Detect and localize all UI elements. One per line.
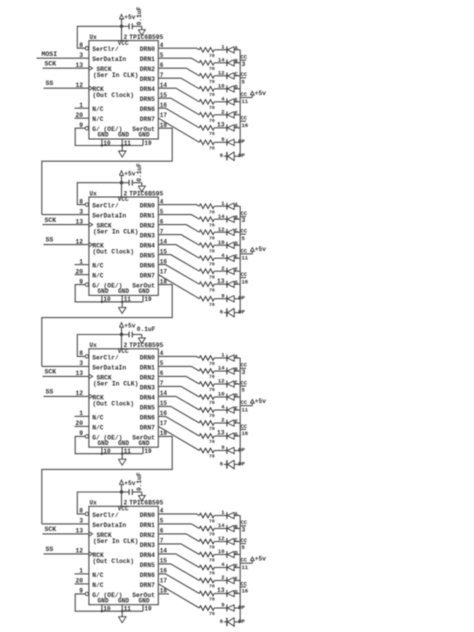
ground symbol below U1 (118, 146, 126, 158)
LED segment G diode (stage 4) (227, 590, 240, 597)
common pin CC 3 tap (stage 4) (240, 519, 248, 533)
display pin number 9 (stage 3) (221, 444, 224, 451)
capacitor C4 0.1uF bypass (stage 4) (122, 489, 142, 495)
capacitor C2 0.1uF bypass (stage 2) (122, 180, 142, 186)
node VCC junction (stage 4) (120, 490, 123, 493)
wire DRN3 pin 7 to resistor (stage 2) (158, 235, 199, 246)
display pin number 12 (stage 3) (218, 378, 225, 385)
svg-text:70: 70 (209, 274, 215, 280)
svg-text:8: 8 (79, 350, 83, 357)
wire serial data from previous stage to pin 3 (stage 4) (42, 523, 89, 525)
svg-text:DRN2: DRN2 (140, 374, 155, 381)
IC U1 TPIC6B595 shift register (89, 34, 164, 139)
display pin number 9 (stage 2) (221, 292, 224, 299)
wire DRN6 pin 16 to resistor (stage 1) (158, 108, 199, 128)
common pin CC 16 tap (stage 3) (240, 423, 248, 437)
+5V power symbol (stage 1) (119, 14, 135, 26)
wire resistor to LED (stage 3 row B) (214, 370, 227, 372)
pin 9 inversion bubble G/OE (stage 2) (85, 283, 88, 286)
wire resistor to LED (stage 4 row F) (214, 580, 227, 582)
wire resistor to LED (stage 3 row G) (214, 435, 227, 437)
segment letter DP2 (stage 2) (238, 309, 245, 316)
svg-text:+5v: +5v (124, 14, 135, 21)
svg-text:CC: CC (241, 210, 248, 217)
resistor R3 70 ohm segment C (stage 1) (199, 74, 215, 86)
wire resistor to LED (stage 4 row E) (214, 567, 227, 569)
resistor R14 70 ohm segment F (stage 2) (199, 269, 215, 281)
svg-text:CC: CC (241, 557, 248, 564)
svg-text:11: 11 (124, 140, 132, 147)
segment letter A (stage 4) (235, 511, 239, 517)
LED segment D diode (stage 2) (227, 242, 240, 249)
LED segment B diode (stage 2) (227, 216, 240, 223)
svg-text:13: 13 (217, 587, 225, 594)
svg-text:DRN7: DRN7 (140, 582, 155, 589)
svg-text:B: B (235, 215, 238, 221)
common pin CC 16 tap (stage 2) (240, 271, 248, 285)
svg-text:SS: SS (46, 80, 54, 87)
svg-text:GND: GND (98, 440, 109, 447)
svg-text:CC: CC (241, 537, 248, 544)
svg-text:G: G (235, 589, 238, 595)
svg-text:10: 10 (218, 391, 225, 398)
wire DRN4 pin 14 to resistor (stage 4) (158, 554, 199, 568)
svg-text:(Ser In CLK): (Ser In CLK) (93, 538, 138, 545)
wire resistor to LED (stage 2 row C) (214, 231, 227, 233)
svg-text:SerClr/: SerClr/ (92, 512, 119, 519)
svg-text:70: 70 (209, 519, 215, 525)
svg-text:GND: GND (139, 288, 150, 295)
svg-text:+5v: +5v (124, 322, 135, 329)
svg-text:DRN7: DRN7 (140, 273, 155, 280)
svg-text:N/C: N/C (92, 106, 104, 113)
svg-text:DRN7: DRN7 (140, 424, 155, 431)
wire MOSI to SerDataIn pin 3 (37, 57, 89, 59)
wire SerClr tie-high: junction to pin 8 (stage 1) (77, 26, 121, 48)
svg-text:6: 6 (220, 309, 223, 316)
LED segment D diode (stage 4) (227, 551, 240, 558)
svg-text:11: 11 (242, 564, 249, 571)
GND pin stubs 10 11 19 (stage 1) (101, 139, 152, 147)
svg-text:12: 12 (218, 226, 225, 233)
pin 1 N/C stub (stage 2) (75, 264, 89, 266)
svg-text:DP: DP (238, 152, 245, 159)
pin 8 inversion bubble SerClr (stage 3) (85, 355, 88, 358)
svg-text:N/C: N/C (92, 582, 104, 589)
svg-text:70: 70 (209, 558, 215, 564)
ground for C2 (stage 2) (138, 183, 145, 192)
display pin number 2 (stage 1) (221, 108, 224, 115)
LED segment F diode (stage 1) (227, 111, 240, 118)
svg-text:70: 70 (209, 261, 215, 267)
svg-text:GND: GND (139, 132, 150, 139)
svg-text:GND: GND (139, 597, 150, 604)
LED segment A diode (stage 4) (227, 512, 240, 519)
svg-text:10: 10 (103, 448, 111, 455)
segment letter F (stage 1) (235, 111, 238, 117)
svg-text:70: 70 (209, 92, 215, 98)
node VCC junction (stage 3) (120, 333, 123, 336)
svg-text:8: 8 (79, 508, 83, 515)
wire DRN5 pin 15 to resistor (stage 1) (158, 98, 199, 115)
net label SS (stage 3) (46, 388, 54, 395)
resistor R23 70 ohm segment G (stage 3) (199, 434, 215, 446)
svg-text:11: 11 (124, 296, 132, 303)
pin 2 label VCC (stage 4) (124, 500, 128, 507)
pin 13 clock wedge (stage 3) (89, 374, 93, 378)
svg-text:0.1uF: 0.1uF (136, 163, 143, 182)
svg-text:19: 19 (144, 296, 152, 303)
wire DRN7 pin 17 to resistor (stage 3) (158, 426, 199, 450)
wire DRN0 pin 4 to resistor (stage 4) (158, 514, 199, 516)
svg-text:9: 9 (221, 136, 224, 143)
segment letter F (stage 3) (235, 419, 238, 425)
svg-text:VCC: VCC (118, 506, 129, 513)
wire resistor to LED (stage 4 row C) (214, 541, 227, 543)
svg-text:DRN0: DRN0 (140, 203, 155, 210)
segment letter DP (stage 3) (238, 446, 245, 453)
svg-text:CC: CC (241, 519, 248, 526)
svg-text:10: 10 (103, 140, 111, 147)
wire DRN2 pin 6 to resistor (stage 1) (158, 68, 199, 76)
common anode bus (stage 3) (239, 358, 241, 464)
wire resistor to LED (stage 1 row F) (214, 114, 227, 116)
svg-text:CC: CC (241, 271, 248, 278)
svg-text:SS: SS (46, 237, 54, 244)
resistor R11 70 ohm segment C (stage 2) (199, 230, 215, 242)
svg-text:70: 70 (209, 545, 215, 551)
wire SS to RCK pin 12 (stage 3) (44, 395, 89, 397)
svg-text:DRN4: DRN4 (140, 394, 155, 401)
wire G/OE pin 9 to ground rail (stage 4) (75, 594, 143, 611)
net label MOSI (42, 51, 58, 58)
LED segment E diode (stage 4) (227, 564, 240, 571)
common pin CC 5 tap (stage 2) (240, 228, 248, 242)
svg-text:DRN0: DRN0 (140, 512, 155, 519)
svg-text:2: 2 (221, 574, 224, 581)
common pin CC 5 tap (stage 4) (240, 537, 248, 551)
resistor R26 70 ohm segment B (stage 4) (199, 526, 215, 538)
wire DRN1 pin 5 to resistor (stage 3) (158, 366, 199, 371)
pin 13 clock wedge (stage 1) (89, 66, 93, 70)
svg-text:Ux: Ux (90, 34, 98, 41)
wire SS to RCK pin 12 (stage 2) (44, 244, 89, 246)
IC U4 TPIC6B595 shift register (89, 500, 164, 605)
svg-text:DRN1: DRN1 (140, 522, 155, 529)
LED segment DP diode (stage 4) (227, 605, 240, 612)
svg-text:F: F (235, 419, 238, 425)
wire resistor to LED (stage 2 row DP) (214, 298, 227, 300)
svg-text:CC: CC (241, 379, 248, 386)
wire DRN1 pin 5 to resistor (stage 2) (158, 215, 199, 220)
svg-text:DRN1: DRN1 (140, 213, 155, 220)
resistor R19 70 ohm segment C (stage 3) (199, 382, 215, 394)
svg-text:16: 16 (242, 278, 249, 285)
svg-text:9: 9 (221, 602, 224, 609)
svg-text:6: 6 (220, 618, 223, 625)
svg-text:70: 70 (209, 374, 215, 380)
svg-text:DRN4: DRN4 (140, 86, 155, 93)
+5V supply to anode bus (stage 3) (246, 398, 266, 406)
LED segment F diode (stage 4) (227, 577, 240, 584)
svg-text:CC: CC (241, 580, 248, 587)
segment letter E (stage 4) (235, 563, 238, 569)
GND pin stubs 10 11 19 (stage 2) (101, 295, 152, 303)
segment letter F (stage 2) (235, 267, 238, 273)
svg-text:3: 3 (242, 527, 246, 534)
svg-text:+5v: +5v (255, 398, 266, 405)
IC U2 TPIC6B595 shift register (89, 190, 164, 295)
LED segment C diode (stage 3) (227, 381, 240, 388)
svg-text:G: G (235, 280, 238, 286)
svg-text:70: 70 (209, 79, 215, 85)
GND pin stubs 10 11 19 (stage 4) (101, 605, 152, 613)
LED segment E diode (stage 2) (227, 255, 240, 262)
svg-text:(Out Clock): (Out Clock) (93, 92, 135, 99)
ground symbol below U3 (118, 454, 126, 466)
svg-text:70: 70 (209, 302, 215, 308)
svg-text:D: D (235, 393, 238, 399)
common anode bus (stage 1) (239, 50, 241, 156)
svg-text:N/C: N/C (92, 116, 104, 123)
svg-text:17: 17 (160, 420, 168, 427)
svg-text:70: 70 (209, 387, 215, 393)
display pin number 6 stub (stage 2) (220, 309, 227, 316)
wire SerOut stage 3 to SerDataIn stage 4 (42, 436, 172, 524)
resistor R28 70 ohm segment D (stage 4) (199, 552, 215, 564)
wire SCK to SRCK pin 13 (stage 2) (43, 224, 89, 226)
svg-text:70: 70 (209, 235, 215, 241)
segment letter C (stage 2) (235, 228, 238, 234)
wire DRN0 pin 4 to resistor (stage 1) (158, 48, 199, 50)
svg-text:SCK: SCK (45, 526, 57, 533)
svg-text:10: 10 (218, 82, 225, 89)
left pin numbers 8 3 13 12 1 20 9 (stage 4) (75, 508, 83, 595)
svg-text:2: 2 (221, 108, 224, 115)
wire SerOut stage 2 to SerDataIn stage 3 (42, 285, 172, 367)
segment letter C (stage 3) (235, 380, 238, 386)
resistor R16 70 ohm segment DP (stage 2) (199, 296, 215, 308)
resistor R29 70 ohm segment E (stage 4) (199, 565, 215, 577)
resistor R22 70 ohm segment F (stage 3) (199, 421, 215, 433)
svg-text:DRN0: DRN0 (140, 354, 155, 361)
svg-text:14: 14 (218, 213, 225, 220)
display pin number 10 (stage 2) (218, 239, 225, 246)
svg-text:19: 19 (144, 448, 152, 455)
display pin number 12 (stage 4) (218, 535, 225, 542)
wire DRN7 pin 17 to resistor (stage 4) (158, 584, 199, 608)
svg-text:CC: CC (241, 115, 248, 122)
net label SS (stage 4) (46, 546, 54, 553)
LED segment DP diode (stage 2) (227, 295, 240, 302)
svg-text:6: 6 (220, 152, 223, 159)
svg-text:SerDataIn: SerDataIn (92, 522, 126, 529)
wire VCC junction to pin 2 (stage 1) (121, 26, 123, 40)
pin 9 inversion bubble G/OE (stage 4) (85, 592, 88, 595)
left pin numbers 8 3 13 12 1 20 9 (stage 1) (75, 42, 83, 129)
segment letter B (stage 1) (235, 59, 238, 65)
svg-text:10: 10 (218, 548, 225, 555)
svg-text:D: D (235, 241, 238, 247)
display pin number 4 (stage 3) (221, 404, 225, 411)
svg-text:SerDataIn: SerDataIn (92, 364, 126, 371)
svg-text:9: 9 (221, 292, 224, 299)
common pin CC 5 tap (stage 1) (240, 71, 248, 85)
common pin CC 16 tap (stage 4) (240, 580, 248, 594)
LED segment B diode (stage 4) (227, 525, 240, 532)
display pin number 6 stub (stage 4) (220, 618, 227, 625)
svg-text:70: 70 (209, 611, 215, 617)
resistor R10 70 ohm segment B (stage 2) (199, 217, 215, 229)
display pin number 12 (stage 1) (218, 69, 225, 76)
wire serial data from previous stage to pin 3 (stage 3) (42, 365, 89, 367)
net label SCK (stage 2) (45, 217, 57, 224)
svg-text:70: 70 (209, 118, 215, 124)
LED segment E diode (stage 1) (227, 98, 240, 105)
+5V power symbol (stage 3) (119, 322, 135, 334)
wire DRN2 pin 6 to resistor (stage 2) (158, 225, 199, 233)
wire VCC junction to pin 2 (stage 2) (121, 183, 123, 197)
resistor R8 70 ohm segment DP (stage 1) (199, 140, 215, 152)
pin 1 N/C stub (stage 4) (75, 573, 89, 575)
LED segment C diode (stage 1) (227, 72, 240, 79)
display pin number 9 (stage 1) (221, 136, 224, 143)
pin 8 inversion bubble SerClr (stage 1) (85, 47, 88, 50)
resistor R1 70 ohm segment A (stage 1) (199, 48, 215, 60)
common pin CC 3 tap (stage 1) (240, 54, 248, 68)
svg-text:C: C (235, 537, 238, 543)
LED segment F diode (stage 3) (227, 420, 240, 427)
common pin CC 16 tap (stage 1) (240, 115, 248, 129)
LED segment B diode (stage 1) (227, 59, 240, 66)
wire DRN2 pin 6 to resistor (stage 3) (158, 376, 199, 384)
segment letter A (stage 2) (235, 202, 239, 208)
svg-text:GND: GND (118, 288, 129, 295)
wire DRN5 pin 15 to resistor (stage 4) (158, 564, 199, 581)
display pin number 4 (stage 4) (221, 561, 225, 568)
svg-text:GND: GND (118, 597, 129, 604)
svg-text:11: 11 (124, 448, 132, 455)
svg-text:8: 8 (79, 42, 83, 49)
display pin number 10 (stage 3) (218, 391, 225, 398)
svg-text:14: 14 (218, 365, 225, 372)
resistor R27 70 ohm segment C (stage 4) (199, 539, 215, 551)
svg-text:70: 70 (209, 439, 215, 445)
+5V supply to anode bus (stage 4) (246, 556, 266, 564)
resistor R2 70 ohm segment B (stage 1) (199, 61, 215, 73)
svg-text:E: E (235, 563, 238, 569)
svg-text:16: 16 (242, 430, 249, 437)
svg-text:10: 10 (218, 239, 225, 246)
resistor R20 70 ohm segment D (stage 3) (199, 395, 215, 407)
svg-text:DRN4: DRN4 (140, 243, 155, 250)
left pin numbers 8 3 13 12 1 20 9 (stage 2) (75, 198, 83, 285)
pin 2 label VCC (stage 2) (124, 190, 128, 197)
pin 13 clock wedge (stage 2) (89, 222, 93, 226)
wire SerClr tie-high: junction to pin 8 (stage 4) (77, 492, 121, 514)
pin 8 inversion bubble SerClr (stage 2) (85, 203, 88, 206)
svg-text:+5v: +5v (124, 480, 135, 487)
resistor R21 70 ohm segment E (stage 3) (199, 408, 215, 420)
segment letter A (stage 1) (235, 46, 239, 52)
svg-text:+5v: +5v (124, 171, 135, 178)
capacitor C1 value label 0.1uF (rotated) (136, 6, 143, 25)
svg-text:SerClr/: SerClr/ (92, 46, 119, 53)
svg-text:70: 70 (209, 571, 215, 577)
svg-text:Ux: Ux (90, 190, 98, 197)
segment letter F (stage 4) (235, 576, 238, 582)
svg-text:SerClr/: SerClr/ (92, 354, 119, 361)
display pin number 13 (stage 2) (217, 278, 225, 285)
svg-text:CC: CC (241, 71, 248, 78)
resistor R25 70 ohm segment A (stage 4) (199, 513, 215, 525)
capacitor C1 0.1uF bypass (stage 1) (122, 23, 142, 29)
LED segment C diode (stage 2) (227, 229, 240, 236)
svg-text:16: 16 (242, 122, 249, 129)
segment letter D (stage 4) (235, 550, 238, 556)
segment letter D (stage 1) (235, 85, 238, 91)
segment letter DP (stage 4) (238, 604, 245, 611)
wire resistor to LED (stage 3 row F) (214, 422, 227, 424)
LED segment DP2 diode (stage 3) (227, 460, 240, 469)
wire resistor to LED (stage 2 row A) (214, 205, 227, 207)
capacitor C3 0.1uF bypass (stage 3) (122, 332, 142, 338)
wire resistor to LED (stage 3 row D) (214, 396, 227, 398)
wire SCK to SRCK pin 13 (stage 3) (43, 375, 89, 377)
svg-text:SCK: SCK (45, 60, 57, 67)
display pin number 2 (stage 4) (221, 574, 224, 581)
wire serial data from previous stage to pin 3 (stage 2) (42, 214, 89, 216)
wire SS to RCK pin 12 (stage 4) (44, 553, 89, 555)
svg-text:0.1uF: 0.1uF (136, 6, 143, 25)
common pin CC 11 tap (stage 2) (240, 247, 249, 261)
LED segment DP2 diode (stage 4) (227, 618, 240, 627)
svg-text:TPIC6B595: TPIC6B595 (129, 342, 163, 349)
svg-text:DRN3: DRN3 (140, 384, 155, 391)
svg-text:70: 70 (209, 597, 215, 603)
wire resistor to LED (stage 1 row D) (214, 88, 227, 90)
LED segment G diode (stage 3) (227, 433, 240, 440)
svg-text:SerClr/: SerClr/ (92, 203, 119, 210)
svg-text:DRN6: DRN6 (140, 414, 155, 421)
net label SCK (stage 1) (45, 60, 57, 67)
svg-text:6: 6 (220, 460, 223, 467)
svg-text:GND: GND (139, 440, 150, 447)
+5V power symbol (stage 4) (119, 480, 135, 492)
resistor R24 70 ohm segment DP (stage 3) (199, 448, 215, 460)
resistor R7 70 ohm segment G (stage 1) (199, 126, 215, 138)
IC U3 TPIC6B595 shift register (89, 342, 164, 447)
svg-text:F: F (235, 576, 238, 582)
segment letter C (stage 1) (235, 72, 238, 78)
resistor R31 70 ohm segment G (stage 4) (199, 591, 215, 603)
svg-text:SerDataIn: SerDataIn (92, 56, 126, 63)
svg-text:3: 3 (242, 217, 246, 224)
svg-text:2: 2 (221, 265, 224, 272)
svg-text:+5v: +5v (255, 246, 266, 253)
display pin number 1 (stage 1) (221, 43, 225, 50)
svg-text:VCC: VCC (118, 40, 129, 47)
svg-text:DP: DP (238, 309, 245, 316)
wire VCC junction to pin 2 (stage 3) (121, 335, 123, 349)
wire resistor to LED (stage 2 row G) (214, 283, 227, 285)
svg-text:G: G (235, 432, 238, 438)
pin 2 label VCC (stage 1) (124, 34, 128, 41)
svg-text:DP: DP (238, 446, 245, 453)
display pin number 10 (stage 1) (218, 82, 225, 89)
svg-text:(Ser In CLK): (Ser In CLK) (93, 380, 138, 387)
wire DRN4 pin 14 to resistor (stage 1) (158, 88, 199, 102)
